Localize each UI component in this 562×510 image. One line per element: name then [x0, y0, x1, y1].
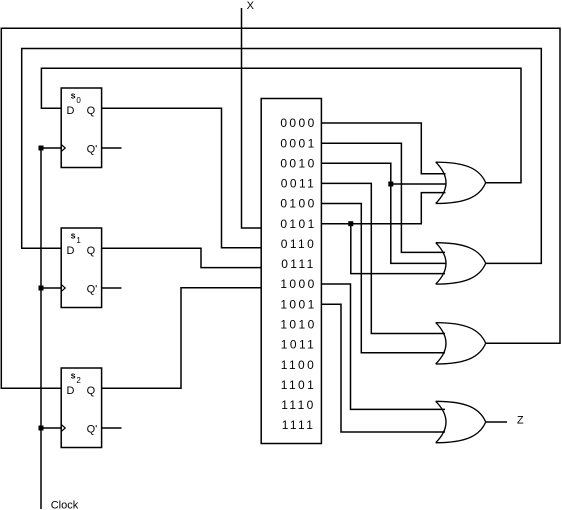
wire decoder row 0100 to U7 input B: [321, 204, 445, 353]
svg-text:0: 0: [76, 96, 81, 105]
wire U1 Q' stub: [102, 147, 122, 149]
flip-flop U2 (s1) box: [61, 228, 101, 308]
or-gate U6 (D1): [436, 243, 486, 284]
or-gate U7 (D2): [436, 323, 486, 364]
svg-text:D: D: [67, 385, 75, 397]
U3 pin labels: [67, 385, 98, 436]
svg-text:Z: Z: [517, 415, 524, 427]
svg-text:1011: 1011: [281, 338, 316, 352]
svg-text:0011: 0011: [281, 177, 316, 191]
wire U2 Q to decoder input 3: [102, 248, 262, 267]
wire U3 Q to decoder input 4: [102, 288, 262, 389]
U1 clock wedge: [61, 144, 65, 151]
svg-text:2: 2: [76, 376, 81, 385]
flip-flop U1 (s0) box: [61, 88, 101, 168]
wire U5 output to U1 D feedback: [41, 68, 521, 183]
junction clock at U3: [39, 426, 44, 431]
svg-text:1: 1: [76, 236, 81, 245]
wire U8 output Z: [486, 421, 507, 423]
svg-text:Q': Q': [87, 283, 98, 295]
svg-text:0001: 0001: [280, 136, 316, 150]
wire decoder row 0101 to U5 input C: [321, 193, 445, 224]
wire junction branch 0101 to U6 input C: [351, 224, 445, 274]
svg-text:s: s: [71, 231, 76, 241]
svg-text:1000: 1000: [280, 277, 316, 291]
decoder row labels: [280, 116, 316, 432]
or-gate U8 (Z): [436, 401, 486, 442]
wire U1 Q to decoder input 2: [102, 108, 262, 247]
wire clock to U2: [41, 287, 61, 289]
svg-text:1100: 1100: [281, 358, 316, 372]
svg-text:1001: 1001: [280, 297, 316, 311]
wire X input: [242, 8, 262, 228]
svg-text:Q: Q: [87, 105, 96, 117]
wire clock line: [40, 148, 42, 509]
svg-text:0110: 0110: [281, 237, 316, 251]
wire U2 Q' stub: [102, 287, 122, 289]
svg-text:Q: Q: [87, 385, 96, 397]
wire clock to U3: [41, 427, 61, 429]
wire U3 Q' stub: [102, 427, 122, 429]
svg-text:0100: 0100: [280, 197, 316, 211]
wire decoder row 0001 to U6 input A: [321, 143, 445, 252]
U3 clock wedge: [61, 424, 65, 431]
wire junction branch 0010 to U5 input B: [391, 183, 446, 185]
svg-text:1111: 1111: [282, 418, 316, 432]
junction clock at U1: [39, 146, 44, 151]
wire decoder row 1001 to U8 input B: [321, 304, 445, 432]
svg-text:1101: 1101: [281, 378, 316, 392]
svg-text:0000: 0000: [280, 116, 316, 130]
U2 pin labels: [67, 245, 98, 295]
svg-text:s: s: [71, 91, 76, 101]
svg-text:0111: 0111: [281, 257, 316, 271]
U2 clock wedge: [61, 284, 65, 291]
U1 pin labels: [67, 105, 98, 156]
wire clock to U1: [41, 147, 61, 149]
svg-text:X: X: [247, 0, 255, 12]
svg-text:0010: 0010: [280, 157, 316, 171]
wire decoder row 0011 to U7 input A: [321, 183, 445, 333]
svg-text:s: s: [71, 371, 76, 381]
wire decoder row 0000 to U5 input A: [321, 123, 445, 174]
svg-text:1110: 1110: [281, 398, 316, 412]
svg-text:D: D: [67, 105, 75, 117]
wire decoder row 1000 to U8 input A: [321, 284, 445, 409]
svg-text:Clock: Clock: [51, 500, 79, 510]
svg-text:0101: 0101: [280, 217, 316, 231]
junction clock at U2: [39, 286, 44, 291]
decoder U4 box: [261, 99, 321, 444]
wire U6 output to U2 D feedback: [22, 49, 542, 264]
svg-text:D: D: [67, 245, 75, 257]
flip-flop U3 (s2) box: [61, 368, 101, 448]
junction on 0010 line: [388, 182, 393, 187]
svg-text:Q': Q': [87, 143, 98, 155]
svg-text:Q: Q: [87, 245, 96, 257]
wire U7 output to U3 D feedback: [1, 28, 560, 388]
or-gate U5 (D0): [436, 162, 486, 203]
svg-text:Q': Q': [87, 423, 98, 435]
wire decoder row 0010 to U6 input B: [321, 163, 446, 263]
svg-text:1010: 1010: [280, 318, 316, 332]
junction on 0101 line: [348, 221, 353, 226]
